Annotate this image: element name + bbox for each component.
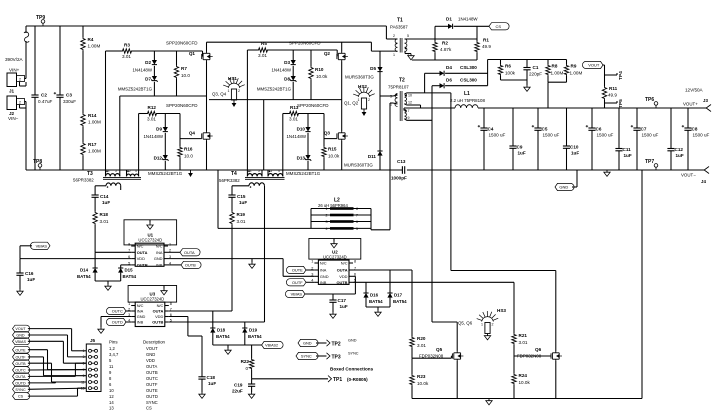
svg-text:R4: R4 — [88, 37, 94, 42]
svg-text:4: 4 — [326, 227, 328, 231]
svg-text:OUTF: OUTF — [146, 382, 158, 387]
svg-text:56PR3382: 56PR3382 — [219, 178, 240, 183]
svg-text:1.00M: 1.00M — [88, 149, 101, 154]
svg-text:1uF: 1uF — [27, 277, 35, 282]
svg-text:1uF: 1uF — [208, 381, 216, 386]
node GND flag output — [555, 170, 577, 191]
svg-text:C8: C8 — [692, 127, 698, 132]
wire OUTC to J5 — [28, 369, 86, 371]
zener D8 — [284, 66, 296, 100]
svg-text:MURS360T3G: MURS360T3G — [345, 75, 374, 80]
svg-text:0: 0 — [245, 366, 248, 371]
capacitor C16 — [16, 259, 35, 289]
svg-text:Q3, Q4: Q3, Q4 — [212, 92, 227, 97]
svg-text:HS1: HS1 — [228, 76, 237, 81]
node OUTE flag — [286, 266, 314, 273]
wire T4A gate riser — [246, 50, 248, 170]
svg-text:VBIAS: VBIAS — [291, 292, 303, 297]
svg-text:TP7: TP7 — [645, 159, 654, 165]
svg-text:3.01: 3.01 — [147, 117, 156, 122]
resistor R3 — [106, 43, 203, 60]
transistor Q1 — [166, 41, 213, 62]
svg-text:(0-R0805): (0-R0805) — [347, 377, 368, 382]
svg-text:T1: T1 — [397, 18, 403, 24]
resistor R22 — [241, 345, 254, 379]
svg-text:GND: GND — [303, 341, 312, 346]
wire VIN- to bottom rail — [25, 102, 27, 171]
wire Q3 drain — [341, 125, 343, 131]
svg-text:C18: C18 — [207, 375, 216, 380]
wire T2 pin10 row — [407, 92, 451, 94]
svg-text:J4: J4 — [701, 179, 706, 184]
zener D13 — [297, 133, 312, 170]
transistor Q2 — [289, 41, 348, 62]
zener D12 — [154, 133, 169, 170]
node OUTD flag — [106, 318, 131, 325]
wire D18/D19 bus — [213, 345, 262, 348]
svg-text:R9: R9 — [571, 64, 577, 69]
text D8 value — [257, 87, 292, 92]
diode D10 — [297, 114, 311, 132]
svg-text:10: 10 — [109, 388, 114, 393]
node GND flag J5 column — [13, 332, 30, 339]
svg-text:OUTC: OUTC — [15, 369, 26, 373]
capacitor C10 — [563, 108, 579, 170]
svg-text:Q1: Q1 — [189, 51, 196, 56]
svg-text:C16: C16 — [25, 271, 34, 276]
wire pin9/D6 riser to Q5 — [431, 86, 433, 322]
svg-text:MMSZ5242BT1G: MMSZ5242BT1G — [286, 171, 321, 176]
svg-text:INB: INB — [320, 280, 327, 285]
svg-text:1500 uF: 1500 uF — [693, 133, 710, 138]
svg-text:10.0k: 10.0k — [328, 154, 340, 159]
svg-text:26 uH 56PR964: 26 uH 56PR964 — [318, 203, 348, 208]
svg-text:D10: D10 — [297, 127, 306, 132]
wire center tap to L1 — [404, 107, 455, 109]
svg-text:D9: D9 — [156, 127, 162, 132]
svg-text:8: 8 — [354, 259, 356, 263]
svg-text:C15: C15 — [237, 194, 246, 199]
resistor R8 — [546, 60, 564, 83]
capacitor C6 — [586, 108, 614, 170]
resistor R19 — [230, 197, 234, 311]
svg-text:SPP20N60CFD: SPP20N60CFD — [166, 41, 198, 46]
svg-text:GND: GND — [16, 334, 25, 338]
svg-text:TP8: TP8 — [33, 159, 42, 165]
svg-text:1: 1 — [311, 259, 313, 263]
text D10 value — [286, 134, 306, 139]
transformer T1 — [390, 18, 435, 58]
svg-text:J3: J3 — [703, 98, 708, 103]
text note — [330, 367, 374, 372]
svg-text:R7: R7 — [181, 66, 187, 71]
wire U1 OUTB row — [121, 264, 132, 266]
svg-text:OUTA: OUTA — [137, 250, 148, 255]
wire D14/D15 bus — [95, 281, 121, 284]
svg-text:3.01: 3.01 — [237, 219, 246, 224]
transistor Q4 — [166, 103, 213, 141]
node OUTB flag J5 column — [13, 360, 30, 367]
diode D19 — [242, 322, 262, 345]
node OUTA flag — [168, 249, 200, 256]
capacitor C2 — [31, 26, 52, 170]
svg-text:R18: R18 — [100, 212, 109, 217]
svg-text:CS: CS — [18, 395, 24, 399]
svg-text:49.9: 49.9 — [482, 44, 491, 49]
svg-text:Q3: Q3 — [324, 131, 331, 136]
node CS flag J5 column — [13, 393, 30, 400]
svg-text:VDD: VDD — [155, 314, 163, 319]
svg-text:D5: D5 — [370, 66, 376, 71]
node TP9 — [36, 15, 45, 26]
svg-text:SPP20N60CFD: SPP20N60CFD — [297, 103, 329, 108]
capacitor C9 — [509, 108, 525, 170]
svg-text:N/C: N/C — [137, 244, 144, 249]
svg-text:VIN−: VIN− — [8, 116, 19, 121]
svg-text:12: 12 — [408, 100, 412, 104]
resistor R2 — [433, 26, 452, 60]
svg-text:J5: J5 — [90, 338, 96, 343]
svg-text:D2: D2 — [145, 60, 151, 65]
svg-text:CSL300: CSL300 — [460, 65, 477, 70]
node TP7 — [645, 159, 658, 170]
svg-text:Q2: Q2 — [324, 51, 331, 56]
svg-text:49.9: 49.9 — [608, 93, 617, 98]
svg-text:R2: R2 — [442, 41, 448, 46]
svg-text:INA: INA — [156, 250, 163, 255]
resistor R11 — [602, 86, 617, 108]
svg-text:UCC27324D: UCC27324D — [138, 238, 162, 243]
svg-text:10.0k: 10.0k — [417, 381, 429, 386]
svg-text:GND: GND — [559, 185, 568, 190]
wire T2 pin3 — [380, 95, 393, 97]
inductor L2 — [311, 198, 390, 232]
svg-text:D17: D17 — [394, 293, 403, 298]
node VOUT flag J5 column — [13, 325, 30, 332]
svg-text:3,4,7: 3,4,7 — [109, 352, 119, 357]
wire top rail jog to T1 — [386, 26, 396, 39]
transformer T2 — [388, 78, 412, 122]
wire U3 GND — [101, 317, 131, 328]
node VBIAS flag J5 column — [13, 338, 30, 345]
svg-text:C6: C6 — [596, 127, 602, 132]
diode D1 — [435, 17, 489, 29]
wire U2 OUTA row — [353, 270, 412, 272]
svg-text:SYNC: SYNC — [146, 400, 158, 405]
svg-text:10.0: 10.0 — [181, 73, 190, 78]
svg-text:OUTA: OUTA — [16, 375, 27, 379]
text D12 value — [148, 171, 183, 176]
capacitor C17 — [329, 294, 347, 312]
svg-text:OUTB: OUTB — [336, 280, 347, 285]
svg-text:9: 9 — [408, 116, 410, 120]
wire GND to J5 — [28, 335, 86, 357]
svg-text:11: 11 — [81, 380, 85, 384]
svg-text:OUTB: OUTB — [15, 362, 26, 366]
svg-text:1500 uF: 1500 uF — [597, 133, 614, 138]
svg-text:OUTA: OUTA — [153, 309, 164, 314]
svg-text:D11: D11 — [368, 154, 377, 159]
svg-text:11: 11 — [109, 364, 114, 369]
wire output return rail — [407, 169, 705, 171]
svg-text:GND: GND — [154, 256, 163, 261]
resistor R1 — [475, 26, 492, 60]
svg-text:3.01: 3.01 — [258, 53, 267, 58]
svg-text:D18: D18 — [217, 328, 226, 333]
wire Q1/Q2 drain rail — [207, 41, 372, 43]
svg-text:OUTD: OUTD — [112, 320, 123, 325]
node TP5 — [605, 99, 625, 108]
wire R14-R17 — [82, 127, 84, 142]
svg-text:8: 8 — [128, 242, 130, 246]
svg-text:VDD: VDD — [137, 256, 145, 261]
wire C15 chain — [231, 186, 233, 195]
svg-text:OUTB: OUTB — [152, 320, 163, 325]
wire Q1 drain — [206, 42, 208, 51]
svg-text:3.01: 3.01 — [122, 54, 131, 59]
svg-text:C5: C5 — [542, 127, 548, 132]
svg-text:100k: 100k — [505, 71, 516, 76]
wire U2 VDD jog — [353, 276, 355, 294]
svg-text:N/C: N/C — [157, 303, 164, 308]
svg-text:1uF: 1uF — [239, 200, 247, 205]
capacitor C5 — [532, 108, 560, 170]
svg-text:1.00M: 1.00M — [88, 44, 101, 49]
svg-text:D8: D8 — [284, 77, 290, 82]
transistor Q6 — [517, 347, 562, 361]
svg-text:GND: GND — [146, 352, 155, 357]
svg-text:1500 uF: 1500 uF — [642, 133, 659, 138]
svg-text:VDD: VDD — [339, 274, 347, 279]
svg-text:3.01: 3.01 — [519, 340, 528, 345]
svg-text:Q6: Q6 — [535, 347, 542, 352]
svg-text:T2: T2 — [399, 78, 405, 84]
svg-text:C12: C12 — [675, 147, 684, 152]
svg-text:C9: C9 — [517, 145, 523, 150]
svg-text:R14: R14 — [88, 113, 97, 118]
svg-text:2: 2 — [368, 98, 370, 102]
diode D18 — [210, 311, 230, 345]
svg-text:9: 9 — [83, 374, 85, 378]
resistor R15 — [322, 114, 340, 171]
wire VOUT sense chain — [604, 65, 606, 86]
transformer T3 — [73, 169, 141, 190]
svg-text:7: 7 — [408, 109, 410, 113]
svg-text:TP4: TP4 — [618, 71, 624, 80]
svg-text:VIN+: VIN+ — [9, 67, 20, 72]
wire Q5 gate row — [412, 356, 452, 358]
wire R8/R9 bus to output rail — [548, 82, 567, 108]
svg-text:BAT54: BAT54 — [216, 334, 230, 339]
capacitor C1 — [523, 60, 542, 81]
svg-text:VOUT: VOUT — [146, 346, 158, 351]
fuse F1 — [24, 26, 29, 79]
svg-text:75PR8107: 75PR8107 — [388, 85, 409, 90]
heatsink HS1 — [212, 76, 245, 107]
svg-text:7: 7 — [83, 368, 85, 372]
node TP8 — [33, 159, 42, 170]
svg-text:2: 2 — [492, 323, 494, 327]
wire GND jog to U2 — [283, 259, 314, 277]
capacitor C3 — [54, 26, 77, 170]
node TP3 — [332, 352, 359, 361]
wire T4B gate riser — [282, 114, 284, 170]
svg-text:R1: R1 — [483, 38, 489, 43]
ground D16/D17 — [375, 310, 381, 316]
wire U2 OUTB row — [353, 281, 514, 283]
svg-text:Boxed Connections: Boxed Connections — [330, 367, 374, 372]
svg-text:3: 3 — [326, 220, 328, 224]
svg-text:VOUT+: VOUT+ — [683, 102, 698, 107]
svg-text:C10: C10 — [570, 145, 579, 150]
svg-text:OUTB: OUTB — [137, 263, 148, 268]
svg-text:C17: C17 — [338, 298, 347, 303]
svg-text:1: 1 — [481, 323, 483, 327]
diode D2 — [145, 51, 157, 65]
connector J4 VOUT- — [681, 167, 709, 185]
svg-text:TP1: TP1 — [333, 377, 342, 383]
svg-text:220pF: 220pF — [529, 72, 542, 77]
wire Q6 gate row — [514, 355, 551, 357]
svg-text:J1: J1 — [9, 89, 15, 94]
wire rail to L2 row4 — [218, 170, 330, 228]
node SYNC flag TP3 — [296, 352, 330, 359]
svg-text:1N4148W: 1N4148W — [143, 134, 163, 139]
text D13 value — [286, 171, 321, 176]
node VOUT flag — [582, 61, 604, 68]
resistor R7 — [174, 51, 190, 96]
wire drain rail jog to T1 pin1 — [371, 42, 396, 51]
wire T4A source riser — [263, 100, 265, 170]
capacitor C18 — [198, 375, 216, 392]
svg-text:OUTA: OUTA — [337, 268, 348, 273]
svg-text:1N4148W: 1N4148W — [271, 68, 291, 73]
resistor R16 — [178, 114, 194, 171]
svg-text:SYNC: SYNC — [15, 388, 26, 392]
diode D6 — [432, 78, 488, 89]
wire OUTB to J5 — [28, 363, 86, 382]
node TP4 — [605, 71, 625, 80]
wire Q3 source — [341, 141, 343, 170]
ground U3 GND — [98, 327, 104, 333]
diode D11 — [368, 96, 383, 170]
svg-text:BAT54: BAT54 — [248, 334, 262, 339]
wire R6/C1 bus — [501, 80, 528, 85]
svg-text:D19: D19 — [249, 328, 258, 333]
wire Q1/Q2 source bus — [120, 95, 207, 97]
wire output +12V rail — [478, 107, 707, 109]
wire sense rail — [488, 59, 567, 61]
svg-text:UCC27324D: UCC27324D — [323, 255, 347, 260]
svg-text:1uF: 1uF — [676, 153, 684, 158]
diode D3 — [284, 50, 296, 65]
wire OUTA to J5 — [28, 363, 86, 376]
svg-text:2: 2 — [19, 100, 21, 104]
wire OUTF to J5 — [28, 357, 86, 376]
wire C14 chain — [94, 186, 96, 195]
zener D7 — [145, 66, 157, 96]
svg-text:8: 8 — [356, 207, 358, 211]
diode D16 — [363, 282, 383, 307]
wire U1 GND line — [168, 259, 283, 262]
node OUTC flag — [106, 307, 131, 314]
svg-text:D12: D12 — [154, 156, 163, 161]
svg-text:MMSZ5242BT1G: MMSZ5242BT1G — [257, 87, 292, 92]
svg-text:1.00M: 1.00M — [570, 71, 583, 76]
svg-text:1.00M: 1.00M — [88, 120, 101, 125]
svg-text:D14: D14 — [80, 268, 89, 273]
svg-text:OUTE: OUTE — [146, 388, 158, 393]
svg-text:R20: R20 — [417, 336, 426, 341]
svg-text:1uF: 1uF — [571, 151, 579, 156]
svg-text:10.0: 10.0 — [184, 154, 193, 159]
svg-text:L1: L1 — [464, 91, 470, 97]
svg-text:1N4148W: 1N4148W — [286, 134, 306, 139]
svg-text:PA63587: PA63587 — [390, 25, 408, 30]
resistor R6 — [498, 60, 515, 81]
svg-text:Description: Description — [143, 340, 166, 345]
svg-text:HS3: HS3 — [497, 308, 506, 313]
svg-text:OUTE: OUTE — [292, 268, 303, 273]
capacitor C11 — [615, 108, 631, 170]
svg-text:MURS360T3G: MURS360T3G — [344, 163, 373, 168]
ground T1 pin3 — [405, 51, 414, 60]
svg-text:VOUT: VOUT — [588, 63, 600, 68]
svg-text:SPP20N60CFD: SPP20N60CFD — [289, 41, 321, 46]
node TP1 — [333, 377, 368, 383]
node OUTE flag J5 column — [13, 346, 30, 353]
svg-text:2: 2 — [393, 34, 395, 38]
wire U3 OUTA row — [169, 310, 232, 312]
diode D5 — [370, 51, 382, 96]
wire Q2 drain — [341, 42, 343, 51]
svg-text:VOUT: VOUT — [15, 327, 26, 331]
svg-text:R10: R10 — [315, 67, 324, 72]
wire CS to J5 — [28, 388, 86, 396]
svg-text:OUTA: OUTA — [184, 250, 195, 255]
svg-text:R6: R6 — [505, 64, 511, 69]
wire Q5 drain jog — [432, 322, 457, 351]
capacitor C19 — [232, 379, 255, 394]
svg-text:OUTC: OUTC — [112, 309, 123, 314]
diode D17 — [387, 270, 407, 307]
wire VBIAS to U1 VDD — [20, 258, 131, 260]
node OUTF flag J5 column — [13, 354, 30, 361]
svg-text:BAT54: BAT54 — [77, 274, 91, 279]
svg-text:14: 14 — [109, 400, 114, 405]
svg-text:OUTF: OUTF — [15, 356, 26, 360]
resistor R9 — [564, 60, 582, 83]
svg-text:12V/50A: 12V/50A — [685, 88, 704, 93]
svg-text:D15: D15 — [125, 268, 134, 273]
svg-text:OUTA: OUTA — [146, 364, 158, 369]
svg-text:MMSZ5242BT1G: MMSZ5242BT1G — [118, 87, 153, 92]
wire primary bottom rail — [26, 169, 402, 171]
svg-text:1N4148W: 1N4148W — [132, 68, 152, 73]
svg-text:D1: D1 — [446, 17, 452, 22]
wire T3A source riser — [119, 96, 121, 170]
wire VOUT to J5 — [28, 329, 86, 351]
node OUTB flag — [168, 261, 201, 268]
svg-text:INA: INA — [137, 309, 144, 314]
svg-text:D16: D16 — [370, 293, 379, 298]
resistor R4 — [81, 26, 101, 51]
wire Q4 drain — [206, 126, 208, 131]
wire U3 VDD to C18 — [169, 317, 202, 377]
wire T3A gate riser — [105, 51, 107, 170]
svg-text:SYNC: SYNC — [301, 354, 312, 359]
transistor Q5 — [419, 347, 463, 361]
